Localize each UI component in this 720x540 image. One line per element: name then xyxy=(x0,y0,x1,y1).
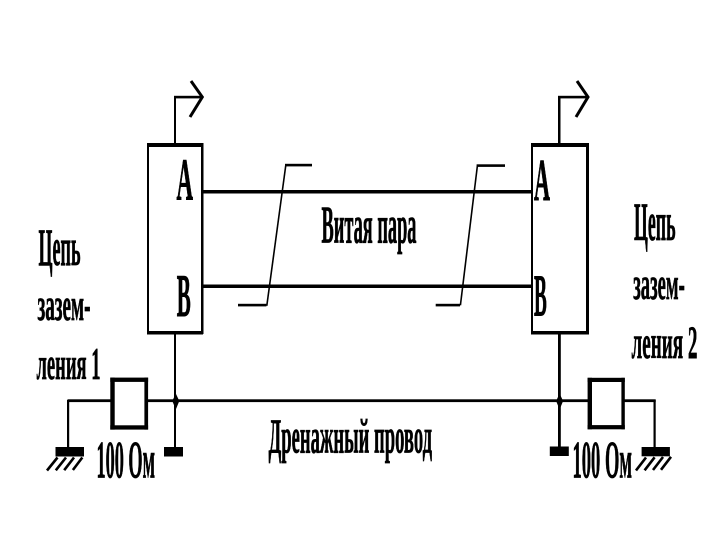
ground leg wire (left box to drain) xyxy=(174,335,176,448)
ground symbol (right) xyxy=(636,447,671,471)
resistor R2 (right) xyxy=(588,378,625,430)
resistor R1 (left) xyxy=(110,378,148,430)
device box 1 (left) xyxy=(147,143,204,335)
svg-text:В: В xyxy=(177,264,191,330)
svg-text:В: В xyxy=(534,264,547,330)
svg-text:А: А xyxy=(534,148,550,214)
wire (left ground drop) xyxy=(67,400,69,447)
svg-text:ления 2: ления 2 xyxy=(632,317,698,368)
wire (left ground branch horizontal) xyxy=(68,399,112,402)
svg-text:Витая пара: Витая пара xyxy=(322,197,417,255)
device box 2 (right) xyxy=(531,143,589,335)
arrow symbol (left box top) xyxy=(174,81,202,143)
wire A-A (top pair conductor) xyxy=(203,190,531,194)
drain wire (horizontal) xyxy=(148,399,588,402)
wire (right ground drop) xyxy=(654,400,656,447)
svg-text:ления 1: ления 1 xyxy=(37,340,101,389)
wire (right ground branch horizontal) xyxy=(625,399,656,402)
arrow symbol (right box top) xyxy=(558,81,588,143)
wire B-B (bottom pair conductor) xyxy=(203,285,531,289)
svg-text:100 Ом: 100 Ом xyxy=(573,431,633,490)
svg-text:зазем-: зазем- xyxy=(38,280,91,331)
svg-text:Дренажный провод: Дренажный провод xyxy=(269,409,433,463)
twist marker (left) xyxy=(238,164,312,307)
ground symbol (left) xyxy=(47,447,84,471)
svg-text:100 Ом: 100 Ом xyxy=(97,431,156,490)
ground leg wire (right box to drain) xyxy=(558,335,561,448)
terminal pad (left drain end) xyxy=(164,447,183,457)
terminal pad (right drain end) xyxy=(550,447,569,457)
svg-text:зазем-: зазем- xyxy=(633,260,685,309)
svg-text:А: А xyxy=(177,148,194,214)
svg-text:Цепь: Цепь xyxy=(39,219,81,277)
svg-text:Цепь: Цепь xyxy=(634,193,676,252)
junction (right) xyxy=(556,394,563,410)
junction (left) xyxy=(172,394,179,410)
twist marker (right) xyxy=(436,164,505,306)
